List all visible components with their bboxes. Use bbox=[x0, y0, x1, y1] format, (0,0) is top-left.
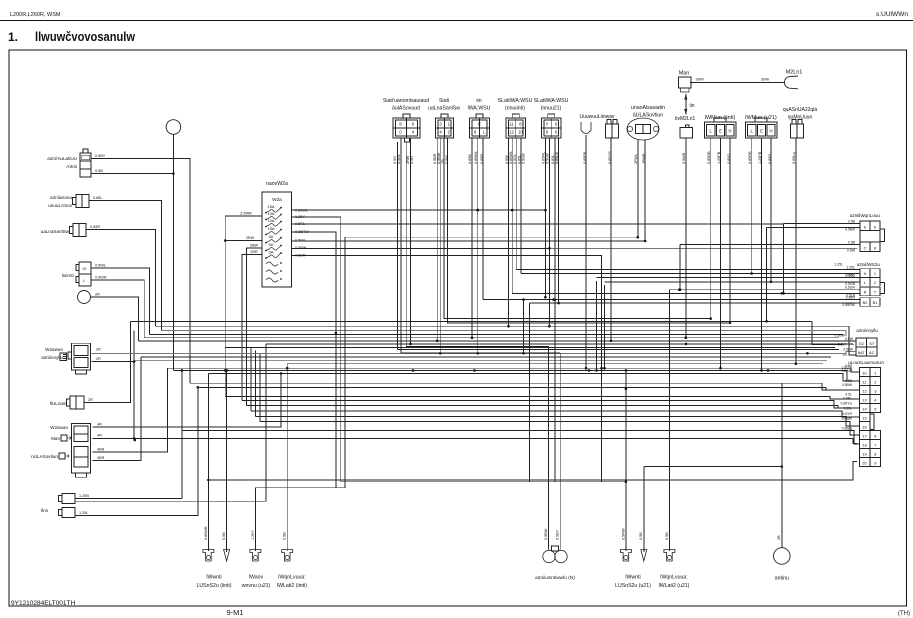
svg-text:2: 2 bbox=[448, 130, 451, 135]
svg-text:0.5B: 0.5B bbox=[95, 169, 103, 173]
svg-text:6: 6 bbox=[412, 122, 415, 127]
wire comb in 8 bbox=[529, 302, 860, 304]
svg-text:8: 8 bbox=[399, 122, 402, 127]
wire ground g3 drop bbox=[254, 488, 256, 551]
svg-text:0: 0 bbox=[399, 130, 402, 135]
svg-text:a2niinnyllu: a2niinnyllu bbox=[856, 328, 878, 333]
svg-text:0.5R: 0.5R bbox=[410, 156, 414, 164]
svg-text:0.5B: 0.5B bbox=[222, 532, 226, 540]
svg-text:a2niilWS2u: a2niilWS2u bbox=[857, 262, 881, 267]
svg-text:Man: Man bbox=[51, 436, 60, 441]
node junction fusible bbox=[134, 439, 137, 442]
wire instrument feed 12 bbox=[182, 431, 860, 445]
wire relay U5 drop 3 bbox=[554, 165, 556, 482]
svg-text:2BR: 2BR bbox=[250, 250, 258, 254]
wire comb elbow 596 bbox=[596, 281, 598, 370]
wire instrument feed 6 bbox=[225, 397, 859, 399]
svg-text:4R: 4R bbox=[97, 423, 102, 427]
svg-text:0.5GL: 0.5GL bbox=[513, 154, 517, 164]
wire temp control drop bbox=[795, 165, 797, 364]
wire main fuse key 2 bbox=[92, 361, 135, 363]
svg-text:16: 16 bbox=[862, 424, 866, 429]
svg-text:6: 6 bbox=[874, 224, 876, 229]
svg-text:SLatilWA:WSU: SLatilWA:WSU bbox=[534, 98, 569, 104]
wire instrument feed 1 bbox=[168, 368, 860, 372]
wire headlamp RH drop 1 bbox=[751, 165, 753, 274]
pto switch symbol bbox=[543, 550, 555, 562]
flasher U3 box bbox=[470, 118, 490, 138]
svg-text:llns: llns bbox=[41, 508, 49, 513]
svg-text:8: 8 bbox=[874, 451, 876, 456]
svg-text:10: 10 bbox=[518, 130, 523, 135]
wire headlamp RH stubs bbox=[751, 138, 753, 165]
wire pto drop 2 bbox=[559, 353, 561, 550]
svg-text:M2Ln1: M2Ln1 bbox=[786, 70, 802, 76]
wire relay U5 drop 4 bbox=[558, 165, 560, 303]
svg-text:äulASovuud: äulASovuud bbox=[392, 106, 420, 112]
wire hazard in 1 bbox=[784, 223, 860, 225]
alternator box bbox=[79, 262, 91, 286]
wire fuse feed 2 bbox=[225, 240, 262, 242]
wire key in 4 bbox=[849, 354, 856, 356]
svg-text:1: 1 bbox=[874, 370, 876, 375]
hazard switch box row2 bbox=[860, 242, 880, 252]
svg-text:(nnuu21): (nnuu21) bbox=[541, 106, 562, 112]
svg-text:15A: 15A bbox=[268, 226, 275, 231]
wire bus line 6 bbox=[266, 343, 853, 345]
svg-text:0.5WR: 0.5WR bbox=[95, 276, 107, 280]
wire fuse out 4 bbox=[292, 232, 336, 488]
connector J1 box bbox=[606, 124, 619, 138]
battery terminal clip bbox=[785, 76, 799, 89]
wire solenoid drop 1 bbox=[637, 165, 639, 237]
wire bottom h4648 bbox=[644, 466, 782, 468]
svg-text:Siati'uanomlsauiaud: Siati'uanomlsauiaud bbox=[383, 98, 429, 104]
svg-text:uaLnaSanlSw: uaLnaSanlSw bbox=[428, 106, 460, 112]
svg-text:a2niiusvnu: a2niiusvnu bbox=[50, 195, 72, 200]
svg-text:3: 3 bbox=[439, 122, 442, 127]
wire fusible link 4 bbox=[93, 357, 142, 460]
wire battery lead 30W bbox=[690, 81, 785, 83]
terminal arrow T1 bbox=[224, 550, 230, 562]
svg-text:4: 4 bbox=[874, 397, 877, 402]
horn connector upper bbox=[62, 494, 75, 504]
circuit breaker CB1 bbox=[266, 262, 278, 266]
svg-text:unaoAlsauiatin: unaoAlsauiatin bbox=[631, 105, 665, 111]
wire bus line 4 bbox=[144, 337, 839, 339]
wire elbow band-feed 6 bbox=[259, 354, 261, 421]
svg-text:0.85O: 0.85O bbox=[768, 154, 772, 164]
wire comb in 2 bbox=[521, 273, 860, 275]
svg-text:18: 18 bbox=[862, 442, 866, 447]
svg-text:0.5B: 0.5B bbox=[848, 241, 856, 245]
wire bus elbow key BAT bbox=[812, 321, 843, 344]
wire fuse out 3 bbox=[292, 223, 784, 225]
svg-text:11: 11 bbox=[862, 379, 866, 384]
svg-text:2FWB: 2FWB bbox=[642, 153, 646, 164]
svg-text:0.85LB: 0.85LB bbox=[555, 151, 559, 164]
svg-text:ST: ST bbox=[869, 341, 875, 346]
wire bus line 5 bbox=[139, 340, 857, 342]
svg-text:12: 12 bbox=[862, 388, 866, 393]
wire instrument feed 8 bbox=[246, 406, 859, 408]
wire bus line 10 bbox=[287, 363, 823, 365]
svg-text:0.5W: 0.5W bbox=[847, 248, 856, 252]
svg-text:2: 2 bbox=[874, 280, 876, 285]
wire comb in 5 bbox=[669, 289, 860, 291]
combination switch row B2B1 bbox=[860, 298, 880, 307]
wire bus elbow right 1 bbox=[162, 330, 847, 336]
svg-text:4BR: 4BR bbox=[97, 448, 105, 452]
svg-text:W2awan: W2awan bbox=[45, 347, 63, 352]
wire alternator IG bbox=[91, 268, 149, 335]
svg-text:10: 10 bbox=[862, 370, 867, 375]
svg-text:llwuwčvovosanulw: llwuwčvovosanulw bbox=[35, 29, 136, 44]
svg-text:15: 15 bbox=[862, 415, 866, 420]
svg-text:L: L bbox=[751, 129, 754, 134]
svg-text:lWLati2 (iinti): lWLati2 (iinti) bbox=[277, 583, 307, 589]
svg-text:0.85L: 0.85L bbox=[844, 407, 853, 411]
svg-text:R: R bbox=[864, 290, 867, 295]
svg-text:H: H bbox=[728, 129, 731, 134]
wire alternator B bbox=[91, 297, 139, 341]
node junction clutch-circle bbox=[172, 172, 175, 175]
svg-text:1.25FB: 1.25FB bbox=[758, 151, 762, 164]
svg-text:0.85PB: 0.85PB bbox=[583, 151, 587, 164]
relay U2 box bbox=[436, 118, 454, 138]
svg-text:W2a: W2a bbox=[272, 197, 282, 202]
svg-text:1.25FB: 1.25FB bbox=[717, 151, 721, 164]
svg-text:lWwnti: lWwnti bbox=[625, 575, 640, 581]
wire alternator L bbox=[91, 280, 144, 338]
wire ground g2 drop bbox=[226, 370, 228, 552]
wire horn 1 bbox=[75, 498, 182, 500]
svg-text:0.85RB: 0.85RB bbox=[748, 151, 752, 164]
wire hazard elbow 2 bbox=[766, 227, 768, 321]
svg-text:1: 1 bbox=[448, 122, 451, 127]
wire fuse out 7 bbox=[292, 256, 602, 482]
svg-text:30W: 30W bbox=[696, 77, 704, 82]
wire bus line 7 bbox=[225, 346, 835, 348]
wire instrument feed 3 bbox=[208, 373, 859, 381]
svg-text:0.5GB: 0.5GB bbox=[522, 153, 526, 164]
svg-text:G2: G2 bbox=[859, 341, 864, 346]
svg-text:5: 5 bbox=[874, 406, 876, 411]
fusible link F0 box bbox=[679, 77, 692, 88]
svg-text:0.5BL: 0.5BL bbox=[397, 154, 401, 164]
svg-text:5A: 5A bbox=[269, 242, 274, 247]
wire hazard link 3 bbox=[679, 245, 681, 290]
svg-text:0.5RW: 0.5RW bbox=[621, 528, 625, 540]
svg-text:10A: 10A bbox=[268, 211, 275, 216]
svg-text:1.: 1. bbox=[8, 30, 18, 44]
wire bus line 2 bbox=[156, 325, 849, 327]
wire relay U4 pin stubs bbox=[508, 138, 510, 165]
svg-text:8AT: 8AT bbox=[858, 350, 865, 355]
svg-text:6: 6 bbox=[555, 130, 558, 135]
svg-text:9: 9 bbox=[555, 122, 558, 127]
svg-text:H: H bbox=[864, 271, 867, 276]
wire instrument feed 5 bbox=[198, 387, 860, 390]
svg-text:unuuLASov: unuuLASov bbox=[48, 203, 72, 208]
svg-text:0.85Lg: 0.85Lg bbox=[792, 152, 796, 164]
horn connector lower bbox=[62, 508, 75, 518]
wire connector J1 stub bbox=[610, 138, 612, 165]
svg-text:0.85RB: 0.85RB bbox=[707, 151, 711, 164]
wire instrument feed 11 bbox=[260, 421, 860, 435]
svg-text:SLatilWA:WSU: SLatilWA:WSU bbox=[498, 98, 533, 104]
wire relay U1 pin stubs bbox=[397, 142, 399, 165]
svg-text:2RW: 2RW bbox=[246, 236, 255, 240]
wire fuse out 6 bbox=[292, 247, 550, 249]
svg-text:9: 9 bbox=[874, 460, 876, 465]
svg-text:0.85WL: 0.85WL bbox=[474, 151, 478, 164]
earth circle symbol bbox=[774, 548, 791, 565]
svg-text:0.5B: 0.5B bbox=[283, 532, 287, 540]
svg-text:0.5YR: 0.5YR bbox=[843, 412, 853, 416]
svg-text:IG: IG bbox=[82, 267, 86, 271]
wire solenoid drop 2 bbox=[644, 165, 646, 241]
wire flasher U3 pin stubs bbox=[471, 138, 473, 165]
wire instrument feed 4 bbox=[190, 383, 860, 390]
hazard switch frame bbox=[860, 221, 880, 252]
wire hazard in 2 bbox=[767, 226, 860, 228]
wire elbow feed12 vert bbox=[181, 370, 183, 498]
wire fuse out 1 bbox=[292, 210, 546, 297]
wire pto drop 1 bbox=[547, 347, 549, 550]
svg-text:0.5BW: 0.5BW bbox=[842, 383, 853, 387]
svg-text:0.85R: 0.85R bbox=[480, 154, 484, 164]
wire solenoid stubs bbox=[637, 140, 639, 165]
wire fusible link 1 bbox=[93, 373, 282, 427]
svg-text:0.5B: 0.5B bbox=[639, 532, 643, 540]
svg-text:0.85R: 0.85R bbox=[846, 296, 856, 300]
svg-text:1.25Y: 1.25Y bbox=[251, 530, 255, 540]
svg-text:4: 4 bbox=[412, 130, 415, 135]
svg-text:0.5WL: 0.5WL bbox=[295, 238, 306, 242]
svg-text:L200R,L260R, WSM: L200R,L260R, WSM bbox=[10, 12, 61, 18]
wire relay U1 drop 2 bbox=[400, 165, 402, 353]
wire fusible link 2 bbox=[93, 438, 858, 443]
svg-text:0.85R: 0.85R bbox=[90, 225, 100, 229]
svg-text:0.5RL: 0.5RL bbox=[843, 396, 852, 400]
svg-text:lWwnti: lWwnti bbox=[206, 575, 221, 581]
wire headlamp RH drop 3 bbox=[770, 165, 772, 282]
ground body G3 bbox=[282, 550, 293, 562]
wire relay U4 drop 4 bbox=[520, 165, 522, 274]
svg-text:0.5WL: 0.5WL bbox=[95, 264, 106, 268]
wire relay U4 drop 3 bbox=[515, 165, 517, 270]
wire headlamp LH drop 2 bbox=[720, 165, 722, 368]
svg-text:1.25L: 1.25L bbox=[846, 266, 855, 270]
wire relay U5 drop 1 bbox=[544, 165, 546, 210]
svg-text:a2nii'nuLatiUU: a2nii'nuLatiUU bbox=[47, 156, 77, 161]
svg-text:a2niilWqnLouu: a2niilWqnLouu bbox=[850, 213, 881, 218]
svg-text:0.5BY: 0.5BY bbox=[556, 529, 560, 540]
wire ground g6 drop bbox=[643, 467, 645, 553]
wire relay U1 drop 4 bbox=[410, 165, 412, 344]
svg-text:L: L bbox=[710, 129, 713, 134]
combination switch row H1 bbox=[860, 269, 880, 278]
wire bus line 1 bbox=[131, 320, 813, 322]
headlamp RH box bbox=[746, 122, 778, 138]
wire relay U2 pin stubs bbox=[436, 138, 438, 165]
svg-text:0.5BW: 0.5BW bbox=[834, 334, 845, 338]
svg-text:2.5WR: 2.5WR bbox=[240, 211, 252, 215]
wire relay U1 drop 1 bbox=[397, 165, 399, 350]
svg-text:5A: 5A bbox=[269, 234, 274, 239]
svg-text:0.5GL: 0.5GL bbox=[845, 274, 855, 278]
wire comb elbow 529 bbox=[528, 303, 530, 482]
svg-text:0.5GW: 0.5GW bbox=[841, 369, 852, 373]
svg-text:0.5WB: 0.5WB bbox=[682, 152, 686, 164]
svg-text:19: 19 bbox=[862, 451, 866, 456]
svg-text:0.5BY: 0.5BY bbox=[95, 154, 106, 158]
svg-text:E: E bbox=[719, 129, 722, 134]
svg-text:1.25L: 1.25L bbox=[79, 511, 89, 515]
svg-text:0.5BR: 0.5BR bbox=[845, 228, 855, 232]
battery box bbox=[70, 396, 84, 409]
svg-text:B2: B2 bbox=[863, 300, 868, 305]
svg-text:5A: 5A bbox=[269, 249, 274, 254]
wire headlamp LH drop 1 bbox=[710, 165, 712, 319]
svg-text:0.5BW: 0.5BW bbox=[544, 528, 548, 540]
svg-text:0.85Lg: 0.85Lg bbox=[842, 426, 852, 430]
svg-text:T: T bbox=[874, 290, 877, 295]
svg-text:s:UUlWWn: s:UUlWWn bbox=[876, 12, 908, 18]
svg-text:lniinSi: lniinSi bbox=[62, 273, 74, 278]
svg-text:lWA:WSU: lWA:WSU bbox=[468, 106, 491, 112]
node harness junction arrow bbox=[685, 94, 687, 115]
wire ground g4 drop bbox=[286, 364, 288, 551]
svg-text:lWqnLvuua:: lWqnLvuua: bbox=[278, 575, 305, 581]
svg-text:8: 8 bbox=[874, 245, 876, 250]
wire headlamp LH stubs bbox=[710, 138, 712, 165]
wire oil pressure switch bbox=[89, 201, 162, 331]
wire fuse feed 4 bbox=[242, 255, 262, 401]
svg-text:lWLati2 (u21): lWLati2 (u21) bbox=[659, 583, 690, 589]
svg-text:uLnaSLaumunUn: uLnaSLaumunUn bbox=[848, 360, 884, 365]
svg-text:naovW2a: naovW2a bbox=[266, 181, 288, 187]
wire clutch switch pin2 bbox=[91, 173, 173, 175]
svg-text:Siati: Siati bbox=[439, 98, 449, 104]
wire fuse feed 1 bbox=[225, 215, 262, 217]
wire bus key BAT long bbox=[92, 352, 857, 354]
wire instrument feed 10 bbox=[255, 416, 859, 426]
wire relay U5 pin stubs bbox=[544, 138, 546, 165]
svg-text:E: E bbox=[760, 129, 763, 134]
wire from top circle bbox=[172, 134, 174, 370]
svg-text:9-M1: 9-M1 bbox=[226, 608, 243, 617]
svg-text:9Y1210284ELT001TH: 9Y1210284ELT001TH bbox=[11, 600, 76, 607]
wire ground g1 drop bbox=[207, 373, 209, 551]
wire connector J1 drop bbox=[610, 165, 612, 341]
svg-text:4: 4 bbox=[439, 130, 442, 135]
svg-text:0.5GR: 0.5GR bbox=[845, 286, 856, 290]
wire hazard elbow 1 bbox=[783, 224, 785, 293]
svg-text:2FWL: 2FWL bbox=[634, 154, 638, 164]
svg-text:antinu: antinu bbox=[775, 576, 789, 582]
svg-text:7: 7 bbox=[874, 442, 876, 447]
svg-text:Man: Man bbox=[679, 71, 690, 77]
fuse box outline bbox=[262, 192, 292, 287]
wire battery bbox=[84, 321, 131, 402]
wire elbow band-feed 4 bbox=[250, 347, 252, 410]
svg-text:13: 13 bbox=[862, 397, 866, 402]
svg-text:uaLnaSanlSw: uaLnaSanlSw bbox=[41, 229, 70, 234]
svg-text:2R: 2R bbox=[96, 357, 101, 361]
svg-text:E: E bbox=[478, 122, 481, 127]
svg-text:2R: 2R bbox=[95, 293, 100, 297]
clutch pedal switch box bbox=[80, 153, 91, 177]
node top circle connector bbox=[166, 120, 181, 135]
ground body G1 bbox=[203, 550, 214, 562]
svg-text:12: 12 bbox=[509, 130, 514, 135]
svg-text:quASnUA22qiä: quASnUA22qiä bbox=[783, 107, 817, 113]
wire comb in 4 bbox=[604, 281, 860, 283]
svg-text:0.5WR: 0.5WR bbox=[842, 417, 853, 421]
svg-text:4R: 4R bbox=[97, 434, 102, 438]
wire fusible link 3 bbox=[93, 368, 168, 452]
svg-text:a2niiuSntiwwlo (N): a2niiuSntiwwlo (N) bbox=[535, 575, 575, 581]
key switch row BATAC bbox=[856, 347, 877, 356]
solenoid SOL1 body bbox=[627, 118, 659, 140]
wire comb elbow 523 bbox=[523, 300, 525, 354]
ground body G5 bbox=[620, 550, 631, 562]
svg-text:0.85O: 0.85O bbox=[727, 154, 731, 164]
wire starter motor bbox=[86, 230, 156, 327]
svg-text:LUSnS2u (iinti): LUSnS2u (iinti) bbox=[197, 583, 232, 589]
svg-text:2B: 2B bbox=[777, 535, 781, 540]
svg-text:30W: 30W bbox=[761, 77, 769, 82]
wire instrument feed 7 bbox=[242, 401, 860, 409]
svg-text:B1: B1 bbox=[873, 300, 878, 305]
svg-text:8: 8 bbox=[474, 130, 477, 135]
svg-text:0.85YG: 0.85YG bbox=[608, 151, 612, 164]
svg-text:L: L bbox=[483, 130, 486, 135]
svg-text:8: 8 bbox=[546, 130, 549, 135]
combination switch row RT bbox=[860, 287, 880, 296]
svg-text:4BR: 4BR bbox=[97, 456, 105, 460]
svg-text:8: 8 bbox=[519, 122, 522, 127]
combination switch row L2 bbox=[860, 278, 880, 287]
svg-text:0.85L: 0.85L bbox=[93, 196, 103, 200]
wire clutch switch pin1 bbox=[91, 159, 190, 384]
wire hazard in 3 bbox=[680, 244, 860, 246]
svg-text:nULASovtiun: nULASovtiun bbox=[31, 454, 58, 459]
svg-text:(nnuiinti): (nnuiinti) bbox=[505, 106, 525, 112]
svg-text:3: 3 bbox=[874, 388, 876, 393]
svg-text:2: 2 bbox=[874, 379, 876, 384]
svg-text:2BW: 2BW bbox=[250, 243, 259, 247]
wire fuse out 2 bbox=[292, 217, 626, 482]
svg-text:2R: 2R bbox=[96, 348, 101, 352]
wire fuel pump drop bbox=[585, 165, 587, 368]
svg-text:iin: iin bbox=[690, 103, 695, 109]
wire temp control stub bbox=[795, 138, 797, 165]
terminal arrow T2 bbox=[641, 550, 647, 562]
wire instrument feed 9 bbox=[251, 411, 860, 417]
svg-text:C: C bbox=[864, 245, 867, 250]
wire fuse feed vertical bbox=[224, 241, 226, 397]
svg-text:0.85B: 0.85B bbox=[468, 154, 472, 164]
wire fuse out 5 bbox=[292, 240, 646, 242]
wire fuel pump stub bbox=[585, 135, 587, 165]
alternator B terminal circle bbox=[78, 291, 91, 304]
svg-text:0.5B: 0.5B bbox=[848, 220, 856, 224]
node bus dots bbox=[685, 343, 688, 346]
svg-text:LUSnS2u (u21): LUSnS2u (u21) bbox=[615, 583, 651, 589]
